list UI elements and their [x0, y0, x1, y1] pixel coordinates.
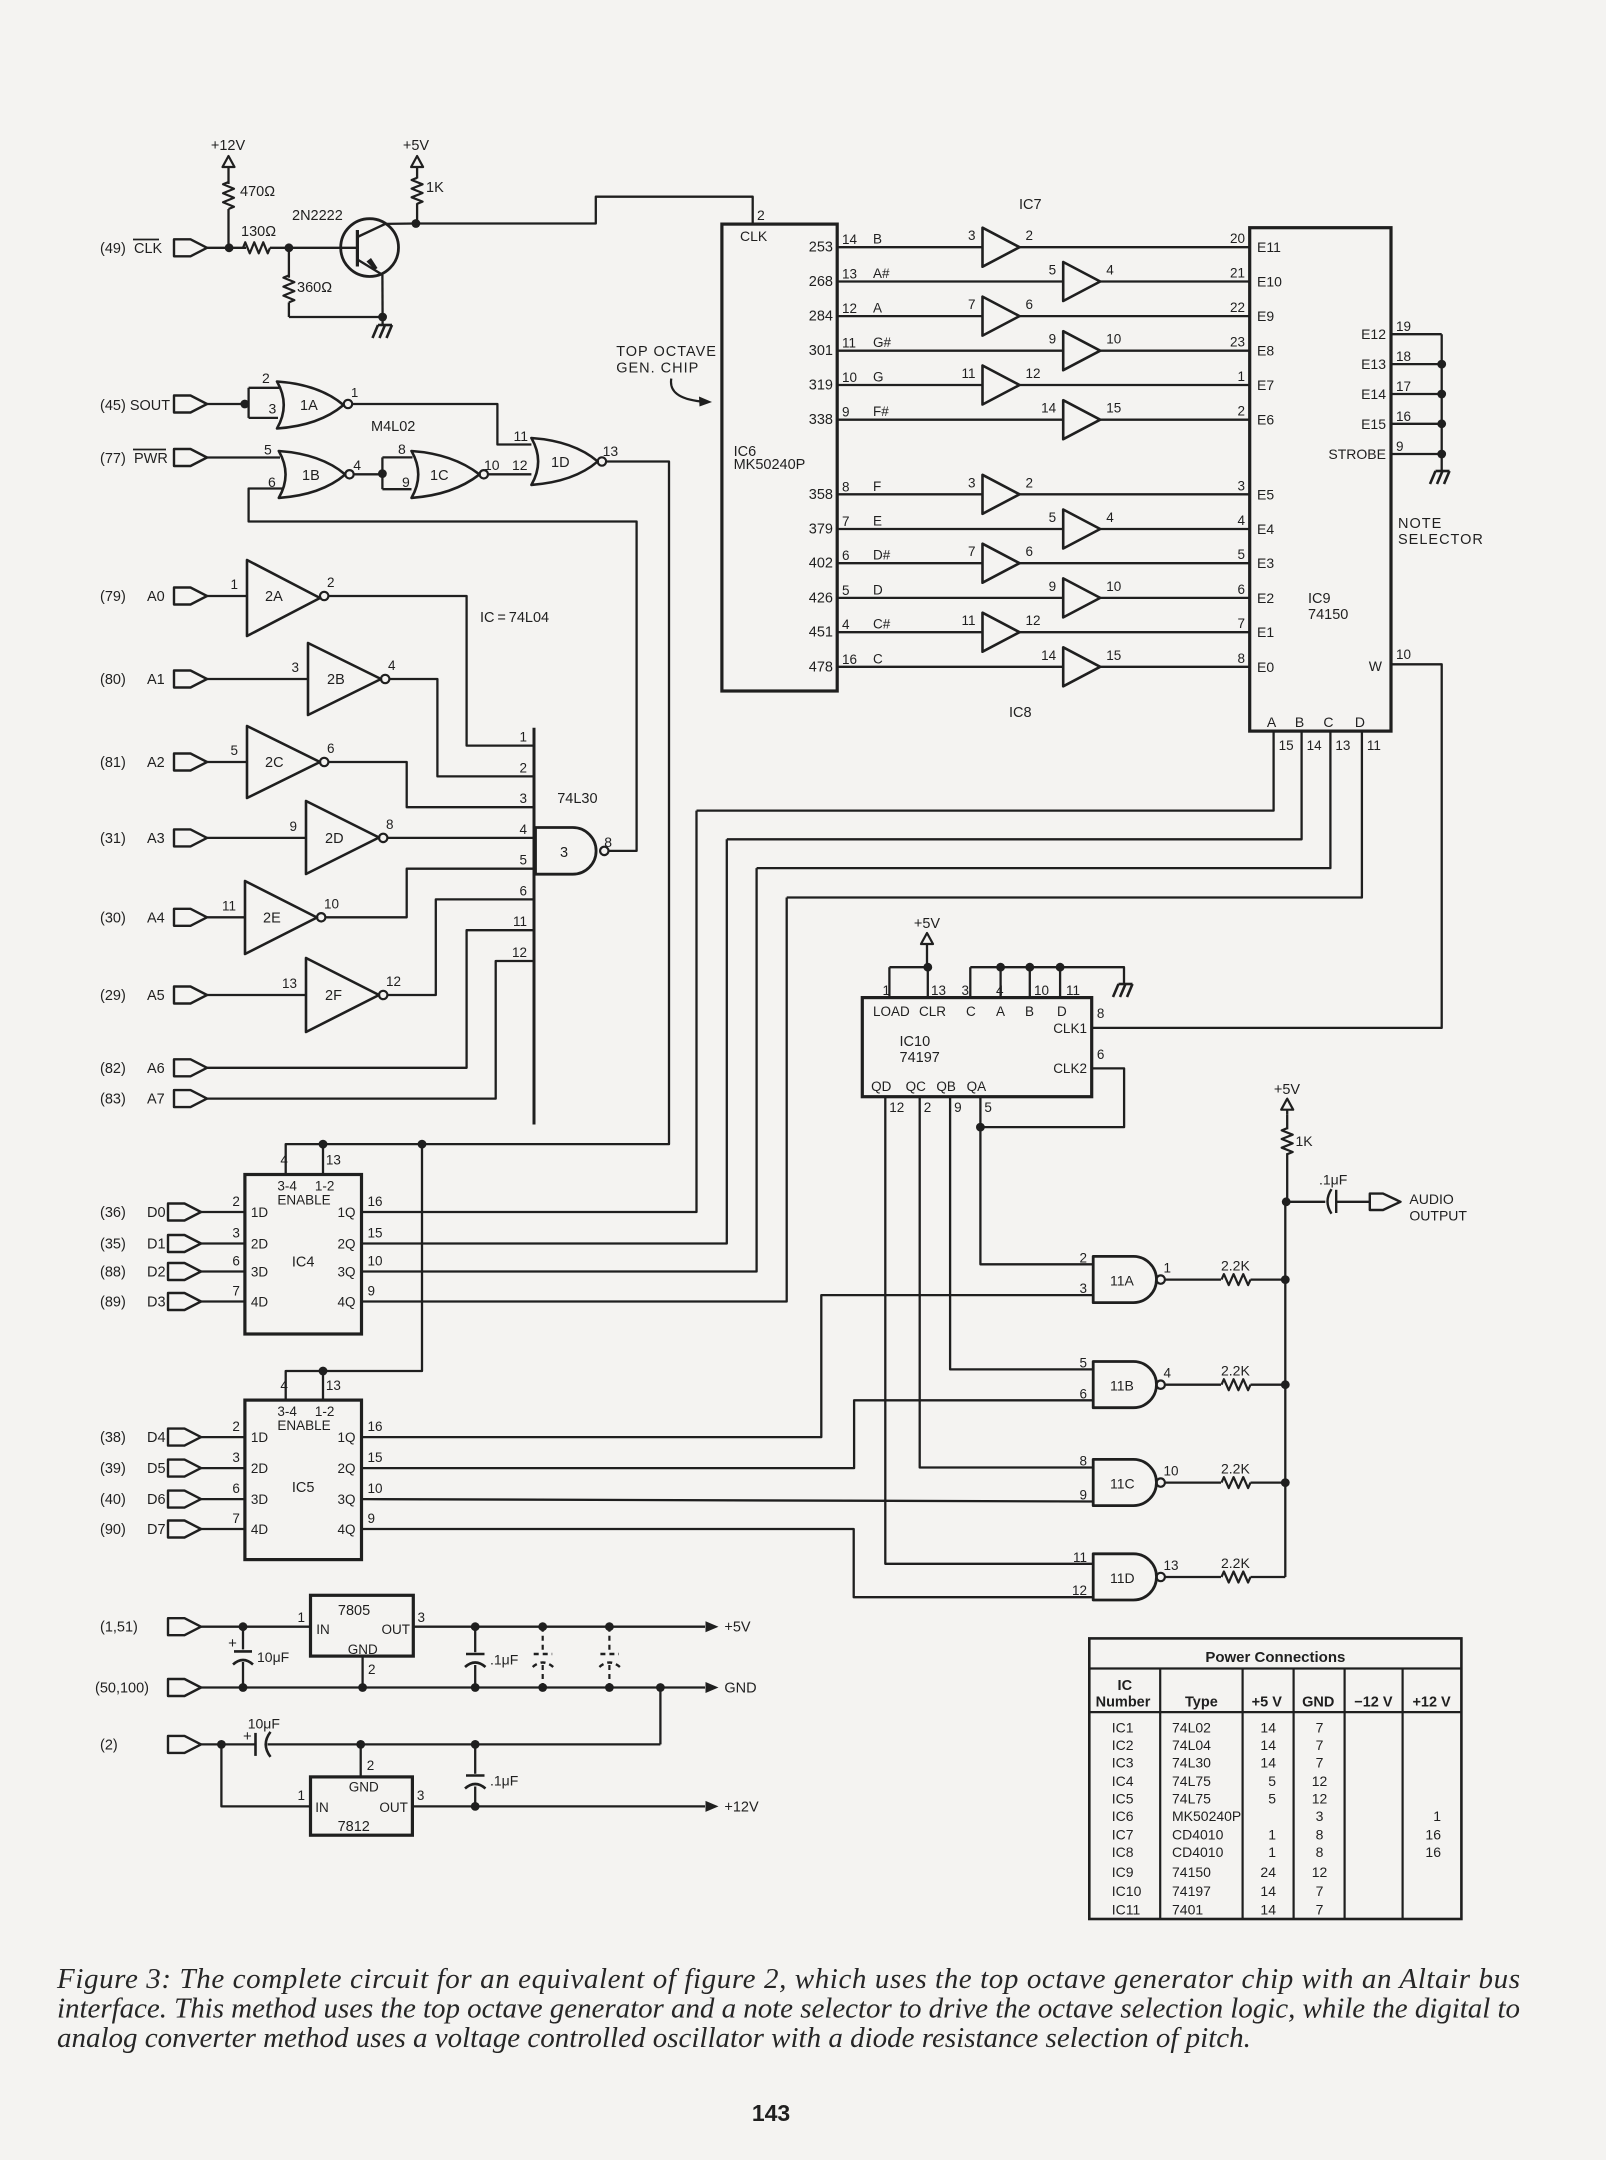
buffer IC7 G	[961, 366, 1040, 405]
+12V rail arrow	[706, 1799, 759, 1815]
wire W output to IC10 CLK1	[1092, 664, 1442, 1028]
svg-text:6: 6	[842, 548, 850, 563]
wire 2C output to 74L30 pin 3	[328, 762, 534, 807]
svg-text:10: 10	[368, 1254, 383, 1269]
wire buffer D# to IC9 E input	[1020, 562, 1250, 564]
svg-text:(83): (83)	[100, 1092, 126, 1108]
svg-text:D5: D5	[147, 1461, 166, 1477]
svg-text:CD4010: CD4010	[1172, 1844, 1224, 1860]
svg-text:9: 9	[368, 1284, 376, 1299]
table row IC6 MK50240P	[1112, 1808, 1441, 1824]
svg-text:6: 6	[1026, 544, 1034, 559]
svg-text:2: 2	[1026, 228, 1034, 243]
svg-text:7: 7	[1316, 1902, 1324, 1918]
svg-text:3: 3	[968, 228, 976, 243]
svg-text:10: 10	[368, 1481, 383, 1496]
pin 4 / E4 label of IC9	[1237, 513, 1274, 537]
svg-text:253: 253	[809, 240, 833, 256]
wire IC5 1Q to gate 11A pin 3	[362, 1295, 1094, 1437]
input connector (38) D4	[100, 1429, 201, 1447]
node A junction	[996, 963, 1005, 972]
svg-text:12: 12	[512, 457, 528, 473]
svg-text:19: 19	[1396, 319, 1411, 334]
svg-text:GND: GND	[724, 1681, 756, 1697]
svg-text:(29): (29)	[100, 988, 126, 1004]
input connector (39) D5	[100, 1460, 201, 1478]
GND rail arrow	[706, 1681, 757, 1697]
svg-text:4: 4	[280, 1153, 288, 1168]
svg-text:.1μF: .1μF	[1319, 1172, 1347, 1188]
svg-text:D2: D2	[147, 1265, 166, 1281]
pin 6 3D of IC4	[232, 1254, 268, 1280]
svg-text:(40): (40)	[100, 1492, 126, 1508]
wire A0 to inverter 2A	[207, 595, 247, 597]
svg-text:GND: GND	[1302, 1695, 1334, 1711]
svg-text:5: 5	[842, 583, 850, 598]
pin 7 / E1 label of IC9	[1237, 616, 1274, 640]
wire D5 to IC5 2D	[201, 1467, 245, 1469]
node (2) junction	[217, 1740, 226, 1749]
svg-text:IC4: IC4	[292, 1254, 315, 1270]
svg-text:3: 3	[418, 1610, 426, 1625]
svg-text:7: 7	[1237, 616, 1245, 631]
svg-text:8: 8	[1316, 1827, 1324, 1843]
svg-text:(36): (36)	[100, 1205, 126, 1221]
node label 451 pin 4 note C# (IC6 row)	[809, 617, 891, 641]
svg-text:IC4: IC4	[1112, 1773, 1134, 1789]
node enable junction to IC5	[418, 1140, 427, 1149]
svg-text:IN: IN	[316, 1622, 330, 1637]
svg-text:17: 17	[1396, 379, 1411, 394]
svg-text:1: 1	[230, 577, 238, 592]
svg-text:9: 9	[1396, 439, 1404, 454]
svg-text:130Ω: 130Ω	[241, 224, 276, 240]
resistor 470 ohm	[223, 182, 275, 209]
svg-text:2D: 2D	[325, 831, 344, 847]
svg-text:Power Connections: Power Connections	[1205, 1649, 1345, 1666]
svg-text:12: 12	[1312, 1773, 1328, 1789]
+5V rail arrow	[706, 1620, 751, 1636]
capacitor bypass (dashed, distributed) 1	[533, 1622, 554, 1692]
svg-text:74197: 74197	[900, 1050, 940, 1066]
svg-text:E13: E13	[1361, 356, 1386, 372]
svg-text:7805: 7805	[338, 1603, 370, 1619]
wire D7 to IC5 4D	[201, 1528, 245, 1530]
svg-text:6: 6	[232, 1481, 240, 1496]
svg-text:A7: A7	[147, 1092, 165, 1108]
buffer IC7 A	[968, 297, 1033, 336]
svg-text:M4L02: M4L02	[371, 419, 415, 435]
svg-text:8: 8	[1097, 1006, 1105, 1021]
svg-text:8: 8	[842, 479, 850, 494]
svg-text:13: 13	[326, 1378, 341, 1393]
transistor Q1 2N2222	[292, 208, 399, 277]
wire enable branch pin 13 of IC4	[322, 1144, 324, 1174]
resistor 130 ohm	[241, 224, 276, 253]
svg-text:74L02: 74L02	[1172, 1719, 1211, 1735]
node E14 junction	[1437, 390, 1446, 399]
svg-text:338: 338	[809, 412, 833, 428]
svg-text:analog converter method uses a: analog converter method uses a voltage c…	[57, 2022, 1251, 2054]
wire (1,51) to 7805 IN	[201, 1626, 311, 1628]
svg-text:3: 3	[1237, 478, 1245, 493]
nor gate 1C	[398, 441, 488, 498]
svg-text:74L30: 74L30	[1172, 1755, 1211, 1771]
inverter 2B	[291, 643, 396, 715]
wire IC9 select C to latch IC4	[757, 731, 1331, 868]
svg-text:2: 2	[1026, 475, 1034, 490]
svg-text:IC10: IC10	[900, 1034, 931, 1050]
buffer IC8 C#	[961, 613, 1040, 652]
svg-text:+12V: +12V	[724, 1799, 759, 1815]
svg-text:14: 14	[1260, 1737, 1276, 1753]
svg-text:2: 2	[232, 1419, 240, 1434]
svg-text:4Q: 4Q	[337, 1522, 355, 1537]
input connector (35) D1	[100, 1235, 201, 1253]
wire PWR to 1B pin 5	[207, 456, 280, 458]
svg-text:3-4: 3-4	[277, 1404, 297, 1419]
svg-text:3: 3	[968, 475, 976, 490]
node label 402 pin 6 note D# (IC6 row)	[809, 548, 891, 572]
pin 2 1D of IC5	[232, 1419, 268, 1445]
svg-text:1: 1	[1164, 1261, 1172, 1276]
svg-text:4: 4	[388, 658, 396, 673]
svg-text:14: 14	[1041, 401, 1057, 416]
wire audio summing bus	[1284, 1202, 1286, 1577]
svg-text:−12 V: −12 V	[1354, 1695, 1393, 1711]
buffer IC8 E	[1049, 510, 1115, 549]
svg-text:A0: A0	[147, 589, 165, 605]
wire A4 to inverter 2E	[207, 916, 245, 918]
svg-text:IC8: IC8	[1009, 705, 1032, 721]
input connector (89) D3	[100, 1293, 201, 1311]
node label 253 pin 14 note B (IC6 row)	[809, 232, 882, 256]
svg-text:8: 8	[398, 441, 406, 457]
svg-text:SELECTOR: SELECTOR	[1398, 532, 1484, 548]
svg-text:1D: 1D	[551, 455, 570, 471]
table row IC1 74L02	[1112, 1719, 1324, 1735]
svg-text:4: 4	[842, 617, 850, 632]
node 11A junction	[1281, 1275, 1290, 1284]
svg-text:2: 2	[519, 760, 527, 775]
svg-text:Figure 3: The complete circui: Figure 3: The complete circuit for an eq…	[56, 1963, 1520, 1995]
svg-text:D7: D7	[147, 1522, 166, 1538]
pin 7 4D of IC5	[232, 1511, 268, 1537]
svg-text:9: 9	[1049, 332, 1057, 347]
input connector (90) D7	[100, 1521, 201, 1539]
svg-text:379: 379	[809, 522, 833, 538]
svg-text:3: 3	[291, 660, 299, 675]
svg-text:3Q: 3Q	[337, 1265, 355, 1280]
node enable junction IC4 pin13	[319, 1140, 328, 1149]
svg-text:11: 11	[513, 914, 527, 929]
node collector junction	[412, 219, 421, 228]
svg-text:D1: D1	[147, 1237, 166, 1253]
resistor 1K (clock pull-up)	[412, 172, 444, 224]
op IC6 MK50240P top octave generator	[722, 224, 837, 691]
svg-text:74L04: 74L04	[1172, 1737, 1211, 1753]
svg-text:OUT: OUT	[382, 1622, 411, 1637]
resistor 2.2K (11A)	[1221, 1258, 1251, 1286]
input connector (49) CLK	[100, 239, 207, 257]
svg-text:5: 5	[1237, 547, 1245, 562]
pin 15 select A of IC9	[1267, 714, 1294, 753]
wire CLK connector to junction	[207, 247, 246, 249]
svg-text:16: 16	[1425, 1827, 1441, 1843]
buffer IC7 G#	[1049, 331, 1122, 370]
wire +12V to 470 ohm	[227, 172, 229, 184]
wire E13 to ground bus	[1391, 363, 1442, 365]
svg-text:74L75: 74L75	[1172, 1790, 1211, 1806]
svg-text:12: 12	[512, 945, 527, 960]
svg-text:D3: D3	[147, 1295, 166, 1311]
buffer IC7 A#	[1049, 262, 1115, 301]
node B junction	[1025, 963, 1034, 972]
svg-text:E6: E6	[1257, 412, 1274, 428]
op 7805 regulator	[297, 1595, 425, 1657]
buffer IC8 D#	[968, 544, 1033, 583]
svg-text:268: 268	[809, 274, 833, 290]
wire enable down to IC5	[286, 1144, 422, 1400]
svg-text:8: 8	[1316, 1844, 1324, 1860]
svg-text:10μF: 10μF	[257, 1649, 289, 1665]
svg-text:12: 12	[386, 974, 401, 989]
svg-text:10: 10	[1396, 647, 1411, 662]
svg-text:2E: 2E	[263, 910, 281, 926]
svg-text:IC10: IC10	[1112, 1883, 1142, 1899]
inverter 2D	[289, 801, 393, 874]
svg-text:13: 13	[603, 443, 619, 459]
svg-text:9: 9	[1049, 579, 1057, 594]
svg-text:C: C	[966, 1004, 976, 1019]
svg-text:IC9: IC9	[1112, 1864, 1134, 1880]
wire cap to audio output connector	[1336, 1201, 1370, 1203]
pin 21 / E10 label of IC9	[1230, 266, 1282, 290]
wire IC6 C output to buffer	[837, 666, 1063, 668]
svg-text:10: 10	[1034, 983, 1049, 998]
pin 2 1D of IC4	[232, 1194, 268, 1220]
svg-text:2C: 2C	[265, 755, 284, 771]
svg-text:3: 3	[1079, 1281, 1087, 1296]
svg-text:1Q: 1Q	[337, 1205, 355, 1220]
svg-text:9: 9	[842, 405, 850, 420]
svg-text:CLK1: CLK1	[1053, 1021, 1087, 1036]
svg-text:2Q: 2Q	[337, 1237, 355, 1252]
pin 9 4Q of IC5	[337, 1511, 375, 1537]
svg-text:12: 12	[842, 301, 857, 316]
wire D6 to IC5 3D	[201, 1498, 245, 1500]
input connector (29) A5	[100, 987, 207, 1005]
svg-text:8: 8	[604, 834, 612, 850]
svg-text:A: A	[996, 1004, 1005, 1019]
pin 9 QB of IC10	[936, 1079, 961, 1115]
svg-text:5: 5	[1049, 510, 1057, 525]
svg-text:GND: GND	[348, 1642, 378, 1657]
svg-text:C#: C#	[873, 617, 891, 632]
svg-text:15: 15	[368, 1450, 383, 1465]
svg-text:74L75: 74L75	[1172, 1773, 1211, 1789]
svg-text:11: 11	[1367, 738, 1381, 753]
svg-text:STROBE: STROBE	[1328, 446, 1386, 462]
nor gate 1A	[262, 370, 352, 429]
pin 3 C of IC10	[961, 967, 976, 1019]
node SOUT junction	[240, 400, 249, 409]
pin 3 2D of IC4	[232, 1226, 268, 1252]
wire IC9 select A to latch IC4	[697, 731, 1274, 811]
svg-text:14: 14	[1307, 738, 1323, 753]
table row IC10 74197	[1112, 1883, 1324, 1899]
wire 2F output to 74L30 pin 6	[387, 899, 534, 995]
svg-text:11: 11	[222, 898, 236, 913]
pin 2 QC of IC10	[906, 1079, 932, 1115]
svg-text:D: D	[1057, 1004, 1067, 1019]
pin 20 / E11 label of IC9	[1230, 231, 1281, 255]
inverter 2E	[222, 881, 339, 954]
svg-text:6: 6	[1079, 1386, 1087, 1401]
svg-text:10: 10	[324, 896, 339, 911]
buffer IC8 C	[1041, 647, 1121, 686]
wire IC9 select B to latch IC4	[727, 731, 1302, 839]
pin 2 / E6 label of IC9	[1237, 404, 1274, 428]
wire A3 to inverter 2D	[207, 837, 306, 839]
svg-text:21: 21	[1230, 266, 1245, 281]
svg-text:(90): (90)	[100, 1522, 126, 1538]
svg-text:4: 4	[1106, 510, 1114, 525]
node label 268 pin 13 note A# (IC6 row)	[809, 266, 890, 290]
svg-text:D#: D#	[873, 548, 891, 563]
svg-text:1K: 1K	[426, 180, 444, 196]
svg-text:4D: 4D	[251, 1522, 269, 1537]
wire IC6 D# output to buffer	[837, 562, 982, 564]
svg-text:OUTPUT: OUTPUT	[1409, 1208, 1467, 1224]
svg-text:9: 9	[954, 1100, 962, 1115]
svg-text:5: 5	[264, 442, 272, 458]
pin 6 CLK2 of IC10	[1053, 1047, 1104, 1076]
svg-text:10μF: 10μF	[248, 1716, 280, 1732]
svg-text:+5V: +5V	[1274, 1082, 1301, 1098]
pin 16 E15 of IC9	[1361, 409, 1411, 432]
svg-text:3Q: 3Q	[337, 1492, 355, 1507]
svg-text:7: 7	[232, 1511, 240, 1526]
svg-text:7: 7	[968, 544, 976, 559]
wire buffer E to IC9 E input	[1100, 528, 1250, 530]
svg-text:9: 9	[289, 819, 297, 834]
svg-text:11: 11	[1073, 1550, 1087, 1565]
svg-text:11: 11	[1066, 983, 1080, 998]
buffer IC7 B	[968, 228, 1033, 267]
svg-text:C: C	[1323, 714, 1333, 730]
svg-text:D0: D0	[147, 1205, 166, 1221]
wire IC6 D output to buffer	[837, 597, 1063, 599]
svg-text:1: 1	[1237, 369, 1245, 384]
node base junction	[285, 243, 294, 252]
input connector (81) A2	[100, 754, 207, 772]
capacitor bypass (dashed, distributed) 2	[599, 1622, 620, 1692]
wire IC9 unused input ground bus	[1441, 334, 1443, 470]
svg-text:IC5: IC5	[292, 1480, 315, 1496]
svg-text:143: 143	[752, 2100, 790, 2126]
pin 2 GND stub of 7812	[361, 1744, 375, 1777]
svg-text:QC: QC	[906, 1079, 927, 1094]
svg-text:14: 14	[1041, 648, 1057, 663]
pin 8 CLK1 of IC10	[1053, 1006, 1104, 1036]
svg-text:16: 16	[1425, 1844, 1441, 1860]
svg-text:10: 10	[842, 370, 857, 385]
wire IC6 B output to buffer	[837, 246, 982, 248]
wire 11A output to 2.2K	[1165, 1278, 1221, 1280]
wire 7805 OUT to +5V rail	[413, 1626, 705, 1628]
wire buffer G to IC9 E input	[1020, 384, 1250, 386]
pin 14 select B of IC9	[1295, 714, 1322, 753]
pin 22 / E9 label of IC9	[1230, 300, 1274, 324]
svg-text:7: 7	[968, 297, 976, 312]
svg-text:11: 11	[514, 428, 529, 444]
inverter 2F	[282, 958, 401, 1032]
nor gate 1D	[514, 428, 619, 485]
wire 2B output to 74L30 pin 2	[389, 679, 534, 776]
wire IC4 3Q to note select C	[362, 868, 757, 1271]
svg-text:1Q: 1Q	[337, 1430, 355, 1445]
svg-text:11: 11	[842, 336, 856, 351]
svg-text:470Ω: 470Ω	[240, 184, 275, 200]
svg-text:3: 3	[269, 401, 277, 417]
wire A7 to 74L30 pin 12	[207, 961, 534, 1099]
svg-text:A5: A5	[147, 988, 165, 1004]
label NOTE SELECTOR	[1398, 516, 1484, 548]
wire CABD tie to ground	[970, 967, 1124, 983]
wire 1B output to 1C inputs	[353, 457, 382, 474]
wire IC5 2Q to gate 11B pin 6	[362, 1400, 1094, 1468]
svg-text:(1,51): (1,51)	[100, 1620, 138, 1636]
input connector (88) D2	[100, 1263, 201, 1281]
wire STROBE to ground bus	[1391, 453, 1442, 455]
svg-text:CLK2: CLK2	[1053, 1061, 1087, 1076]
wire 2.2K to audio bus	[1251, 1576, 1286, 1578]
svg-text:74197: 74197	[1172, 1883, 1211, 1899]
pin 18 E13 of IC9	[1361, 349, 1411, 372]
svg-text:+5 V: +5 V	[1252, 1695, 1283, 1711]
svg-text:16: 16	[842, 652, 857, 667]
svg-text:12: 12	[889, 1100, 904, 1115]
buffer IC8 D	[1049, 578, 1122, 617]
svg-text:A1: A1	[147, 672, 165, 688]
wire enable branch pin 13 of IC5	[322, 1371, 324, 1400]
resistor 2.2K (11C)	[1221, 1461, 1251, 1489]
svg-text:CLR: CLR	[919, 1004, 946, 1019]
wire 1A output to 1D input 11	[351, 385, 531, 445]
svg-text:10: 10	[1164, 1464, 1179, 1479]
wire 11C output to 2.2K	[1165, 1481, 1221, 1483]
wire CLK2 from QA	[980, 1068, 1124, 1127]
node 1C input junction	[378, 469, 387, 478]
wire IC4 2Q to note select B	[362, 839, 727, 1243]
wire E12 to ground bus	[1391, 333, 1442, 335]
svg-text:4D: 4D	[251, 1295, 269, 1310]
table row IC7 CD4010	[1112, 1827, 1441, 1843]
svg-text:2Q: 2Q	[337, 1461, 355, 1476]
node label 319 pin 10 note G (IC6 row)	[809, 370, 884, 394]
svg-text:284: 284	[809, 309, 833, 325]
svg-text:402: 402	[809, 556, 833, 572]
svg-text:1: 1	[297, 1788, 305, 1803]
wire D0 to IC4 1D	[201, 1211, 245, 1213]
svg-text:OUT: OUT	[379, 1800, 408, 1815]
svg-text:10: 10	[1106, 579, 1121, 594]
input connector (30) A4	[100, 909, 207, 927]
svg-text:D4: D4	[147, 1430, 166, 1446]
svg-text:11B: 11B	[1110, 1378, 1134, 1394]
svg-text:F: F	[873, 479, 881, 494]
